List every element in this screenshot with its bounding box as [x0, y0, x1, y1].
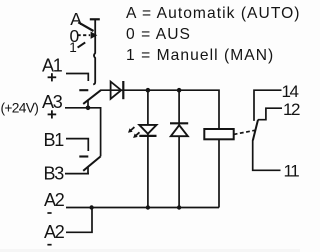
- node bottom bus dot 2: [177, 205, 181, 209]
- selector switch S1 T-bar: [90, 18, 100, 20]
- selector switch shaft: [93, 19, 95, 84]
- svg-text:11: 11: [284, 161, 300, 180]
- node top bus dot 2: [177, 88, 182, 93]
- selector position 0 dashed line: [78, 34, 91, 36]
- svg-text:A3: A3: [42, 92, 63, 112]
- terminal B1 wire: [66, 139, 88, 151]
- svg-text:A = Automatik (AUTO): A = Automatik (AUTO): [126, 5, 300, 22]
- svg-text:1 = Manuell (MAN): 1 = Manuell (MAN): [126, 47, 274, 64]
- actuator dashed link: [234, 130, 256, 134]
- svg-text:A2: A2: [44, 222, 65, 242]
- contact S-B blade: [83, 156, 100, 170]
- diode V2 cathode bar: [170, 122, 188, 124]
- node A3 junction dot: [86, 106, 91, 111]
- contact S-B fixed dash: [79, 155, 88, 157]
- terminal A1 wire: [66, 74, 88, 82]
- contact S-B stub: [87, 167, 89, 174]
- node A2 junction dot: [89, 205, 93, 209]
- relay coil K1: [204, 129, 233, 139]
- LED V1 triangle: [139, 125, 156, 134]
- diode D1 cathode bar: [122, 81, 124, 99]
- wire top bus: [101, 90, 219, 129]
- LED V1 cathode bar: [139, 135, 156, 137]
- diode D1 triangle: [111, 82, 122, 99]
- svg-text:(+24V): (+24V): [1, 101, 39, 116]
- selector arrow head: [91, 32, 98, 39]
- terminal A3 wire: [65, 108, 101, 157]
- svg-text:14: 14: [282, 82, 299, 101]
- wire freewheel diode branch: [178, 90, 180, 207]
- contact S-A fixed dash: [79, 89, 88, 91]
- svg-text:A1: A1: [42, 56, 63, 76]
- svg-text:B1: B1: [44, 130, 65, 150]
- svg-text:1: 1: [69, 40, 77, 55]
- selector position A line: [78, 22, 93, 31]
- node top bus dot 1: [146, 88, 151, 93]
- terminal B3 wire: [65, 173, 89, 175]
- terminal 12 wire: [258, 108, 282, 120]
- svg-text:0 = AUS: 0 = AUS: [126, 26, 191, 43]
- svg-text:12: 12: [283, 100, 300, 119]
- terminal A2 wire and bottom bus: [66, 207, 219, 209]
- wire LED branch: [147, 90, 149, 207]
- terminal A2b wire: [66, 208, 92, 233]
- diode V2 triangle: [171, 125, 188, 136]
- wire coil branch: [218, 129, 220, 208]
- relay contact blade: [253, 120, 258, 141]
- selector position 1 line: [78, 42, 86, 47]
- node bottom bus dot 1: [146, 205, 150, 209]
- plus sign A1: [48, 73, 57, 81]
- terminal 11 wire: [253, 140, 281, 170]
- minus sign A2: [47, 212, 51, 214]
- faint scan edge bottom: [0, 249, 300, 252]
- minus sign A2b: [47, 244, 51, 246]
- plus sign A3: [48, 110, 57, 118]
- svg-text:A2: A2: [44, 190, 65, 210]
- LED V1 emission arrow 2: [133, 132, 139, 138]
- svg-text:B3: B3: [44, 164, 65, 184]
- LED V1 emission arrow 1: [128, 127, 134, 133]
- contact S-A blade: [83, 90, 101, 104]
- contact S-A stub: [87, 100, 89, 108]
- terminal 14 wire: [254, 90, 282, 121]
